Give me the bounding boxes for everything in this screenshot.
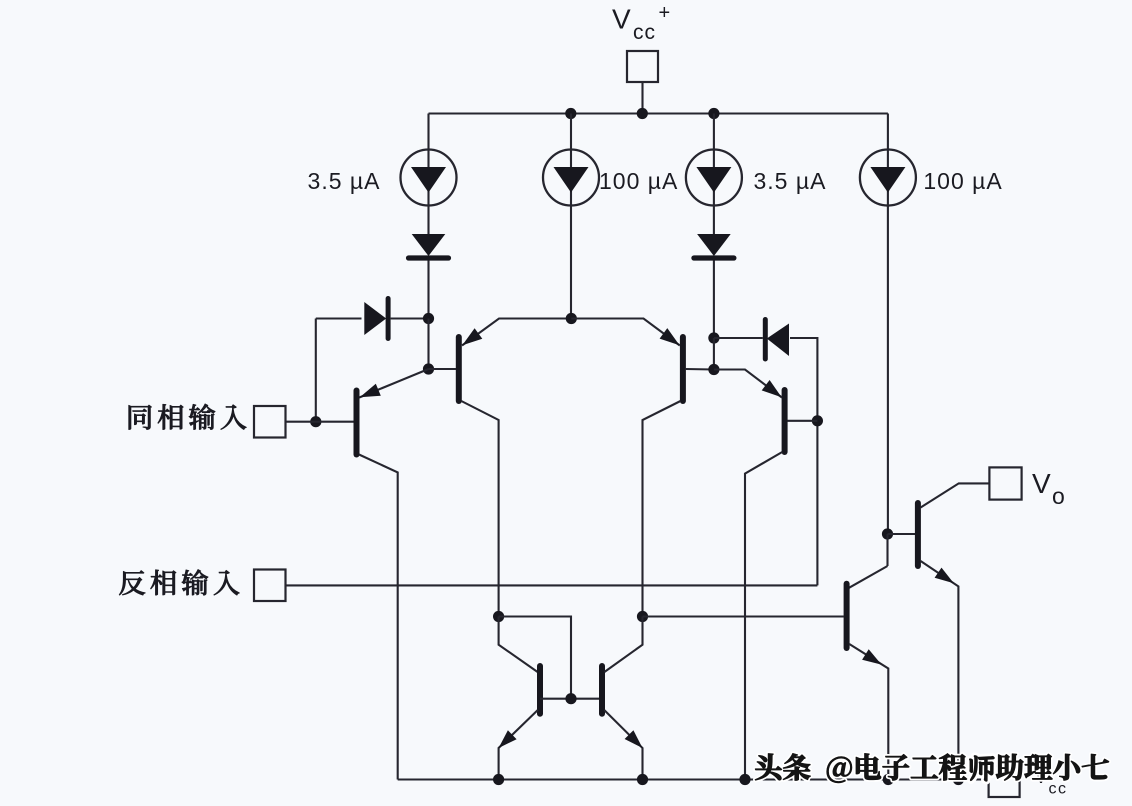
junction on rail at Vcc+: [637, 108, 648, 119]
label inverting input 反相输入: [119, 571, 145, 596]
Q7 emitter wire to V- rail: [499, 710, 538, 780]
label non-inverting input 同相输入: [129, 405, 152, 430]
Q6 collector wire: [849, 566, 888, 588]
transistor Q3 base bar: [680, 337, 686, 401]
Q4 collector wire down to V- rail: [745, 452, 782, 780]
wire Q5 base: [888, 533, 916, 535]
diode D3 left clamp: [364, 302, 386, 335]
transistor Q6 base bar: [844, 584, 850, 648]
terminal Vo: [989, 467, 1021, 499]
node C junction: [708, 332, 719, 343]
wire Q6 base from mirror: [643, 615, 845, 617]
transistor Q5 base bar: [915, 503, 921, 566]
Q5 emitter wire to V- rail: [921, 561, 959, 780]
diode D1 below I1: [412, 234, 446, 256]
transistor Q2 base bar: [456, 337, 462, 401]
terminal inverting input: [254, 570, 286, 602]
node Q4 base junction: [812, 415, 823, 426]
current source I2 100uA: [543, 150, 599, 206]
junction on rail above I3: [708, 108, 719, 119]
diode D2 below I3: [697, 234, 731, 256]
Q3 collector wire down to mirror: [643, 401, 681, 617]
Q2 emitter wire to center node: [462, 319, 571, 346]
wire D1 to node A: [427, 261, 429, 319]
svg-text:cc: cc: [633, 21, 656, 44]
Q7 emitter arrow (NPN): [499, 730, 517, 748]
transistor Q7 base bar: [537, 666, 543, 714]
center emitters junction: [566, 313, 577, 324]
watermark 头条 @电子工程师助理小七: [755, 754, 781, 780]
junction rail at Q4 collector: [739, 774, 750, 785]
junction rail at Q5 emitter: [953, 774, 964, 785]
Q4 emitter arrow (PNP): [762, 380, 782, 397]
junction rail at Q7 emitter: [493, 774, 504, 785]
Q3 emitter arrow (PNP): [660, 328, 680, 345]
svg-text:V: V: [612, 4, 631, 35]
wire D4 anode to inverting input riser: [790, 338, 817, 585]
current source I3 3.5uA: [686, 150, 742, 206]
diode D4 right clamp: [763, 317, 768, 362]
wire rail to current source I3: [713, 114, 715, 235]
Q5 emitter arrow (NPN): [935, 568, 954, 584]
Q2 collector wire down to mirror: [461, 401, 498, 617]
wire D2 to node C: [713, 261, 715, 339]
node B junction: [423, 363, 434, 374]
svg-text:3.5 µA: 3.5 µA: [754, 168, 827, 194]
node A junction: [423, 313, 434, 324]
wire node A to node B: [427, 319, 429, 370]
svg-text:100 µA: 100 µA: [599, 168, 678, 194]
wire Q5 base node to Q6 collector: [886, 534, 888, 566]
transistor Q1 base bar: [354, 391, 360, 455]
node Q2 collector junction: [493, 611, 504, 622]
node non-inverting input junction: [310, 416, 321, 427]
current source I4 100uA: [860, 150, 916, 206]
wire rail to current source I2: [570, 114, 572, 319]
svg-text:3.5 µA: 3.5 µA: [308, 168, 381, 194]
Q3 emitter wire to center node: [571, 319, 680, 346]
wire Vcc+ terminal to top rail: [641, 82, 643, 114]
wire Q4 base to riser: [787, 420, 817, 422]
junction on rail above I2: [565, 108, 576, 119]
Q5 collector wire to Vo: [921, 483, 990, 507]
Q8 emitter wire to V- rail: [604, 710, 642, 780]
wire mirror base-base: [540, 698, 602, 700]
wire node left of clamp diode D3: [316, 317, 362, 319]
wire node B to Q2 base: [429, 368, 457, 370]
Q1 emitter arrow (PNP): [360, 384, 381, 398]
wire D3 anode down to non-inverting input: [315, 319, 317, 422]
svg-text:V: V: [1032, 468, 1051, 499]
Q2 emitter arrow (PNP): [462, 328, 482, 345]
Q8 collector wire: [604, 617, 642, 673]
node D junction: [708, 364, 719, 375]
wire mirror bases from Q2 collector: [499, 617, 571, 699]
wire D3 cathode to node A: [391, 317, 429, 319]
terminal Vcc+: [627, 51, 658, 82]
node Q5 base junction: [882, 528, 893, 539]
node Q3 collector junction: [637, 611, 648, 622]
wire rail to current source I1: [427, 114, 429, 235]
terminal Vcc-: [989, 766, 1020, 797]
Q1 emitter wire to node B: [359, 369, 428, 398]
wire node C to clamp diode D4: [714, 337, 763, 339]
wire node C to node D: [713, 338, 715, 370]
wire inverting input to Q4 base riser: [286, 584, 818, 586]
terminal non-inverting input: [254, 406, 286, 438]
wire input terminal to Q1 base: [286, 421, 355, 423]
Q6 emitter arrow (NPN): [862, 649, 881, 664]
wire rail to current source I4: [887, 114, 889, 208]
Q6 emitter wire to V- rail: [849, 644, 888, 780]
Q4 emitter wire from node D: [714, 370, 782, 398]
wire top supply rail: [429, 112, 888, 114]
wire Q3 base to node D: [686, 368, 714, 371]
current source I1 3.5uA: [401, 150, 457, 206]
junction rail at Q8 emitter: [637, 774, 648, 785]
Q7 collector wire: [499, 617, 538, 673]
mirror bases junction: [565, 693, 576, 704]
transistor Q8 base bar: [599, 666, 605, 714]
svg-text:o: o: [1052, 483, 1065, 509]
svg-text:cc: cc: [1049, 781, 1068, 798]
wire I4 to Q5 base node: [887, 205, 889, 534]
svg-text:+: +: [659, 2, 671, 24]
junction rail at Q6 emitter: [883, 774, 894, 785]
transistor Q4 base bar: [782, 390, 788, 452]
svg-text:100 µA: 100 µA: [923, 168, 1002, 194]
wire bottom V- rail: [398, 778, 989, 780]
Q1 collector wire down to V- rail: [359, 455, 398, 780]
Q8 emitter arrow (NPN): [625, 730, 643, 748]
